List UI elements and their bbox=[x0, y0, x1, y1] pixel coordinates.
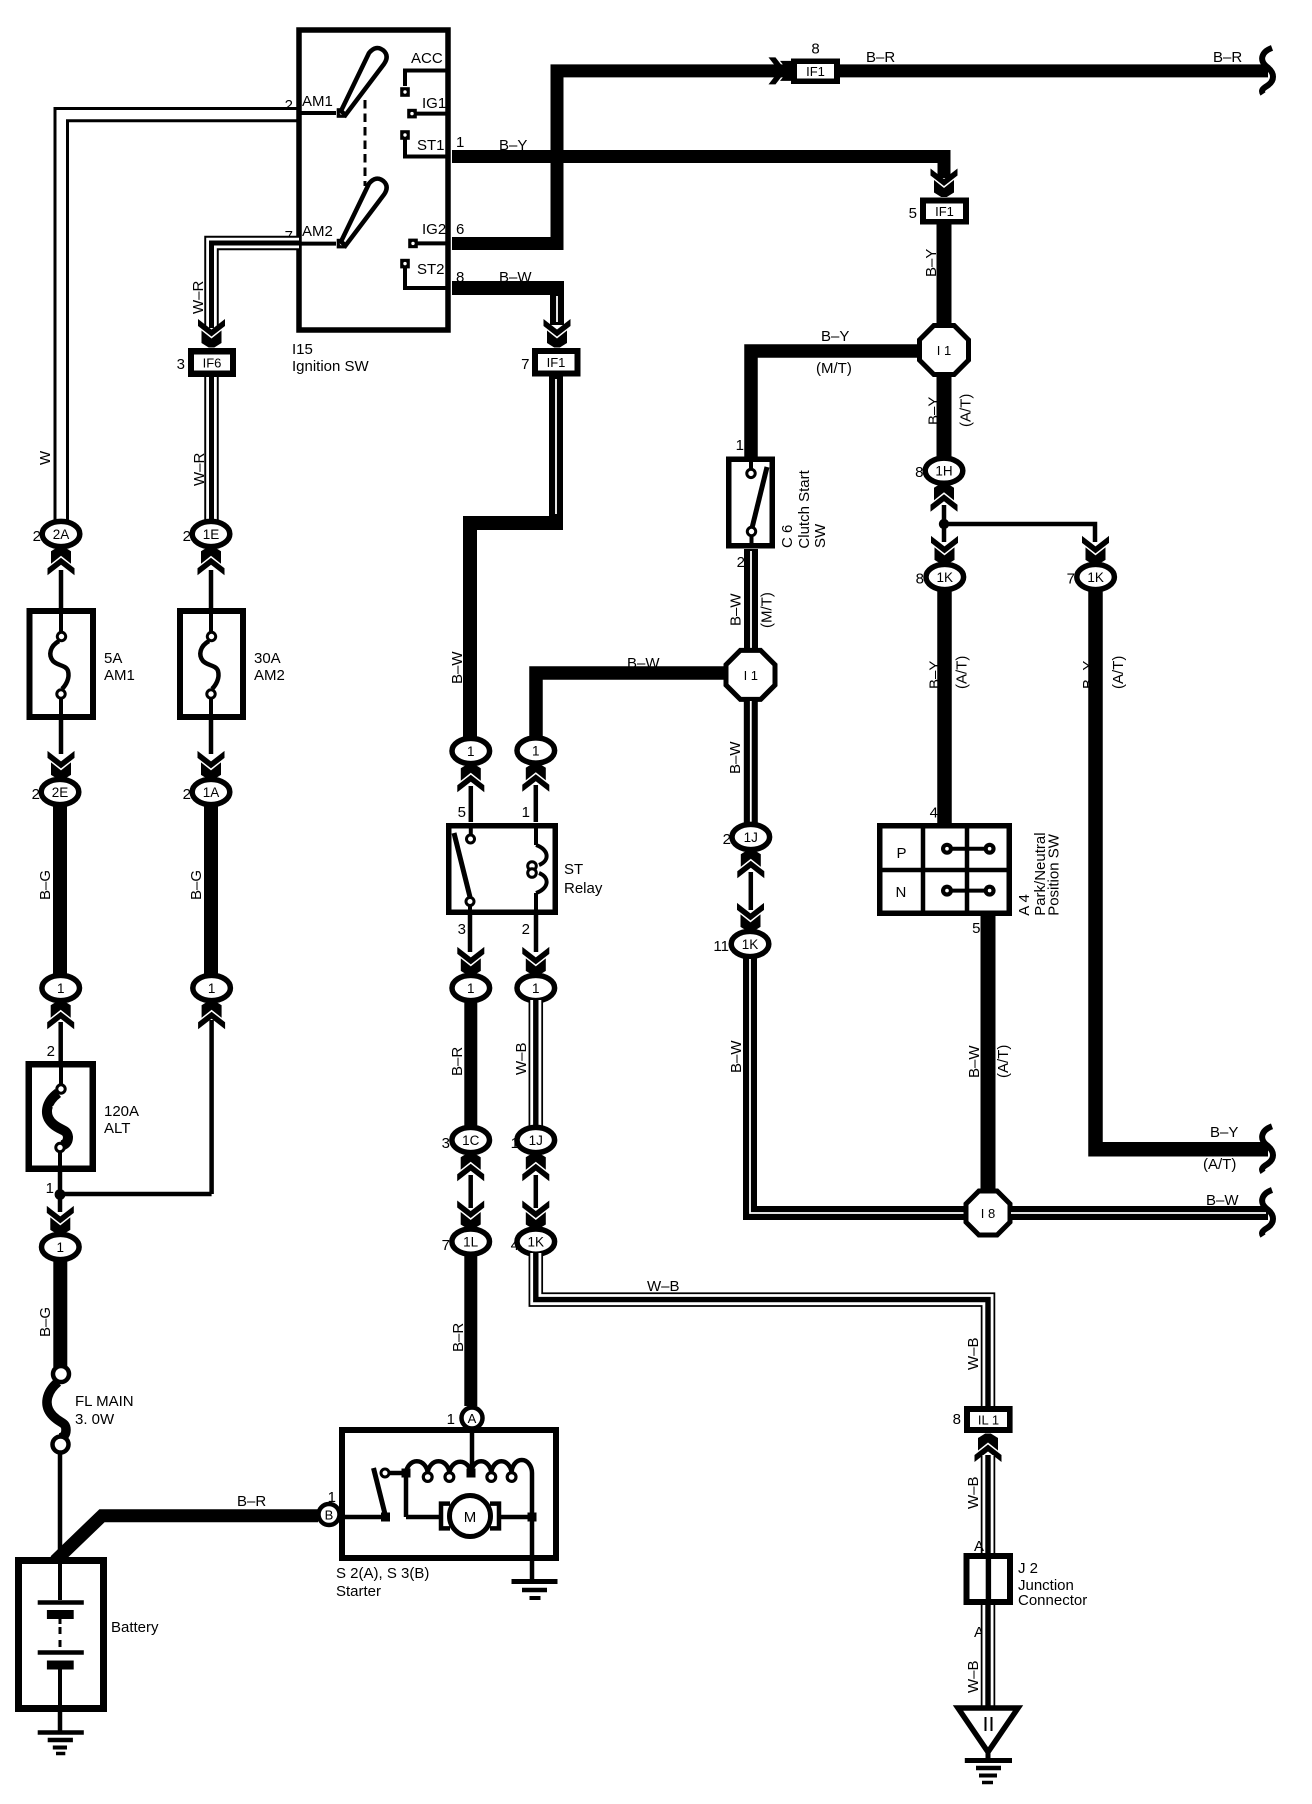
svg-text:1: 1 bbox=[532, 744, 540, 759]
connector 1K pin 7 bbox=[1077, 564, 1115, 589]
svg-text:3: 3 bbox=[177, 356, 185, 373]
wire contact to coil junction bbox=[389, 1471, 404, 1476]
wire oval to relay pin1 bbox=[534, 785, 539, 822]
svg-text:1K: 1K bbox=[742, 937, 759, 952]
node junction right bbox=[528, 1513, 537, 1522]
svg-text:1C: 1C bbox=[462, 1133, 480, 1148]
lever AM2 bbox=[341, 179, 387, 246]
svg-text:(A/T): (A/T) bbox=[1203, 1156, 1236, 1173]
svg-text:B–W: B–W bbox=[499, 269, 532, 286]
arrow into 2E bbox=[48, 751, 75, 780]
svg-text:1A: 1A bbox=[203, 785, 220, 800]
svg-text:IF6: IF6 bbox=[203, 356, 222, 371]
connector 1K pin 8 bbox=[926, 564, 964, 589]
svg-text:7: 7 bbox=[442, 1237, 450, 1254]
svg-text:W–R: W–R bbox=[191, 453, 208, 487]
svg-text:1: 1 bbox=[46, 1180, 54, 1197]
wire 1J to 1K thin bbox=[534, 1175, 539, 1208]
rotor dashed link bbox=[364, 100, 367, 186]
connector IL1 pin 8 bbox=[964, 1406, 1013, 1433]
wire AM1 pin bbox=[299, 111, 336, 115]
svg-text:1E: 1E bbox=[203, 527, 220, 542]
svg-text:(A/T): (A/T) bbox=[954, 656, 971, 689]
wire oval to relay pin5 bbox=[469, 786, 474, 822]
connector IF1 pin 5 bbox=[920, 198, 969, 225]
contact IG1 bbox=[407, 109, 417, 119]
motor brush right bbox=[490, 1504, 499, 1529]
relay switch contact top bbox=[467, 835, 475, 843]
wire 1C to 1L thin bbox=[468, 1175, 473, 1208]
wire W-B 1K(4) to IL1 triple bbox=[536, 1253, 988, 1406]
svg-text:1: 1 bbox=[511, 1135, 519, 1152]
svg-text:IG1: IG1 bbox=[422, 95, 446, 112]
svg-text:P: P bbox=[897, 845, 907, 862]
wire battery to ground bbox=[58, 1712, 63, 1732]
svg-text:8: 8 bbox=[811, 41, 819, 58]
wire W-B IL1 to J2 triple bbox=[981, 1455, 996, 1553]
svg-text:5: 5 bbox=[909, 205, 917, 222]
relay coil pin2 stub bbox=[534, 893, 538, 915]
wire 1H to junction dot bbox=[942, 505, 947, 542]
svg-text:1: 1 bbox=[447, 1411, 455, 1428]
contact AM2 bbox=[337, 239, 347, 249]
svg-text:1: 1 bbox=[736, 437, 744, 454]
relay coil bbox=[536, 845, 547, 865]
arrow into oval 1 (pin2) bbox=[522, 947, 549, 976]
svg-text:IF1: IF1 bbox=[935, 204, 954, 219]
svg-text:W–B: W–B bbox=[965, 1476, 982, 1509]
wire B-Y 1K(8) to park/neutral SW bbox=[937, 589, 952, 825]
contact P row bbox=[947, 847, 990, 851]
wire B-R IG2 to top right bbox=[452, 71, 1268, 244]
svg-text:Relay: Relay bbox=[564, 880, 603, 897]
node junction dot bbox=[55, 1189, 66, 1200]
connector IF6 pin 3 bbox=[188, 348, 236, 377]
svg-text:1: 1 bbox=[456, 134, 464, 151]
svg-text:B: B bbox=[325, 1508, 334, 1523]
svg-text:1H: 1H bbox=[935, 464, 952, 479]
wire junction to 1K(7) bbox=[944, 524, 1095, 542]
wire B-W ST2 to IF1(7) striped bbox=[452, 288, 557, 325]
arrow into 1L bbox=[457, 1201, 484, 1230]
connector 1 below pin2 bbox=[517, 975, 555, 1000]
svg-text:W–B: W–B bbox=[965, 1337, 982, 1370]
svg-text:1: 1 bbox=[467, 981, 475, 996]
svg-text:B–W: B–W bbox=[728, 1040, 745, 1073]
ignition switch I15 box bbox=[299, 30, 448, 330]
arrow into oval 1 lower bbox=[47, 1206, 74, 1235]
svg-text:2E: 2E bbox=[52, 785, 69, 800]
connector 1E pin 2 bbox=[192, 521, 230, 546]
connector 1H pin 8 bbox=[925, 458, 963, 483]
wire 1E to fuse AM2 bbox=[209, 570, 214, 608]
svg-text:AM2: AM2 bbox=[254, 667, 285, 684]
svg-text:ALT: ALT bbox=[104, 1120, 130, 1137]
svg-text:B–R: B–R bbox=[1213, 49, 1242, 66]
connector 2A pin 2 bbox=[42, 521, 80, 546]
svg-text:B–R: B–R bbox=[866, 49, 895, 66]
contact IG2 bbox=[408, 239, 418, 249]
wire W AM1 to 2A outer strand bbox=[55, 109, 299, 523]
svg-text:B–W: B–W bbox=[449, 651, 466, 684]
lever clutch bbox=[752, 467, 768, 530]
svg-text:A: A bbox=[468, 1411, 477, 1426]
arrow up into 1H bbox=[931, 483, 958, 512]
connector 1 left bbox=[42, 975, 80, 1000]
svg-text:Ignition SW: Ignition SW bbox=[292, 358, 370, 375]
arrow up into oval 1 left bbox=[47, 1001, 74, 1029]
svg-text:AM1: AM1 bbox=[302, 93, 333, 110]
svg-text:(A/T): (A/T) bbox=[958, 394, 975, 427]
svg-text:B–W: B–W bbox=[1206, 1192, 1239, 1209]
arrow up into 2A bbox=[48, 547, 75, 576]
wire fuse AM1 to 2E bbox=[59, 720, 64, 754]
wire B-R oval to 1C bbox=[464, 1000, 477, 1128]
svg-text:B–Y: B–Y bbox=[499, 137, 527, 154]
arrow into 1A bbox=[198, 751, 225, 780]
svg-text:SW: SW bbox=[812, 523, 829, 548]
wire 2A to fuse AM1 bbox=[59, 570, 64, 608]
node junction dot bbox=[939, 519, 949, 529]
arrow up into IL1 bbox=[975, 1434, 1002, 1463]
svg-text:1: 1 bbox=[57, 1240, 65, 1255]
wire B-G 1A down bbox=[204, 804, 218, 976]
lever AM1 bbox=[341, 48, 387, 115]
svg-text:B–G: B–G bbox=[37, 1307, 54, 1337]
svg-text:(M/T): (M/T) bbox=[759, 592, 776, 628]
svg-text:ST: ST bbox=[564, 861, 583, 878]
connector 1C pin 3 bbox=[452, 1127, 490, 1152]
svg-text:B–Y: B–Y bbox=[1210, 1124, 1238, 1141]
wire B-Y 1K(7) to right edge bbox=[1096, 589, 1269, 1149]
svg-text:2: 2 bbox=[47, 1043, 55, 1060]
svg-text:5A: 5A bbox=[104, 650, 122, 667]
svg-text:A: A bbox=[974, 1538, 984, 1555]
fuse 5A AM1 box bbox=[30, 611, 94, 717]
svg-text:1J: 1J bbox=[529, 1133, 543, 1148]
svg-text:2: 2 bbox=[522, 921, 530, 938]
relay switch contact bottom bbox=[466, 898, 474, 906]
coil hold-in winding bbox=[406, 1461, 471, 1473]
wire B-Y IF1 to I1 bbox=[937, 225, 952, 329]
svg-text:2: 2 bbox=[723, 831, 731, 848]
wire B-G oval to FL MAIN bbox=[53, 1259, 67, 1367]
wire W AM1 to 2A inner strand bbox=[68, 121, 300, 522]
svg-text:S 2(A), S 3(B): S 2(A), S 3(B) bbox=[336, 1565, 429, 1582]
svg-text:1K: 1K bbox=[937, 570, 954, 585]
wire B-W IF1(7) to relay striped bbox=[470, 377, 556, 739]
connector 1L pin 7 bbox=[452, 1229, 490, 1254]
svg-text:1K: 1K bbox=[528, 1235, 545, 1250]
connector IF1 pin 8 bbox=[791, 59, 840, 85]
connector IF1 pin 7 bbox=[532, 348, 581, 377]
fusible link FL MAIN bbox=[53, 1366, 69, 1382]
svg-text:B–W: B–W bbox=[627, 655, 660, 672]
arrow up into oval 1 left bbox=[457, 764, 484, 793]
arrow up into 1J bbox=[522, 1153, 549, 1182]
wire B-W I1 to 1J striped bbox=[744, 698, 758, 825]
wire W-B oval to 1J triple bbox=[529, 1000, 544, 1128]
relay switch pin3 stub bbox=[468, 905, 472, 915]
svg-text:1: 1 bbox=[467, 744, 475, 759]
wire junction to right oval 1 bbox=[60, 1020, 212, 1194]
svg-text:IF1: IF1 bbox=[806, 64, 825, 79]
svg-text:W: W bbox=[37, 450, 54, 465]
starter box S2(A) S3(B) bbox=[342, 1430, 556, 1558]
wire oval to ALT fuse bbox=[58, 1022, 63, 1061]
wire IG2 contact bbox=[417, 241, 448, 245]
coil pull-in winding bbox=[471, 1460, 532, 1473]
arrow into 1K(4) bbox=[522, 1201, 549, 1230]
relay switch pin5 stub bbox=[469, 823, 473, 834]
contact clutch top bbox=[747, 469, 755, 477]
fuse 30A AM2 box bbox=[180, 611, 243, 717]
divider vertical 1 bbox=[921, 825, 926, 914]
svg-text:C 6: C 6 bbox=[779, 525, 796, 548]
connector 1A pin 2 bbox=[192, 779, 230, 804]
svg-text:(A/T): (A/T) bbox=[1110, 656, 1127, 689]
svg-text:B–R: B–R bbox=[449, 1047, 466, 1076]
svg-text:AM2: AM2 bbox=[302, 223, 333, 240]
svg-text:B–Y: B–Y bbox=[927, 661, 944, 689]
connector 2E pin 2 bbox=[41, 779, 79, 804]
park/neutral position switch A4 box bbox=[880, 826, 1010, 914]
svg-text:2: 2 bbox=[33, 528, 41, 545]
svg-text:FL MAIN: FL MAIN bbox=[75, 1393, 134, 1410]
svg-text:1K: 1K bbox=[1087, 570, 1104, 585]
fuse 120A ALT box bbox=[29, 1064, 93, 1169]
svg-text:3. 0W: 3. 0W bbox=[75, 1411, 115, 1428]
arrow up into 1C bbox=[457, 1153, 484, 1182]
svg-text:Clutch Start: Clutch Start bbox=[796, 469, 813, 548]
wire relay pin2 down bbox=[534, 915, 539, 952]
relay switch lever bbox=[454, 833, 470, 897]
svg-text:B–G: B–G bbox=[37, 870, 54, 900]
svg-text:2: 2 bbox=[32, 786, 40, 803]
svg-text:8: 8 bbox=[953, 1411, 961, 1428]
arrow into 1K(8) bbox=[931, 536, 958, 565]
svg-text:B–Y: B–Y bbox=[821, 328, 849, 345]
ground II stem bbox=[986, 1752, 991, 1759]
arrow into 1K(7) bbox=[1082, 536, 1109, 565]
junction I1 bbox=[920, 326, 969, 375]
wire B-Y M/T branch bbox=[751, 351, 921, 457]
connector 1 below pin3 bbox=[452, 975, 490, 1000]
contact ST2 bbox=[400, 259, 410, 269]
connector 1J pin 2 bbox=[732, 824, 770, 849]
svg-text:B–W: B–W bbox=[728, 593, 745, 626]
svg-text:Starter: Starter bbox=[336, 1583, 381, 1600]
svg-text:2A: 2A bbox=[53, 527, 70, 542]
connector 1 above relay pin5 bbox=[452, 738, 490, 763]
motor M starter bbox=[450, 1496, 491, 1537]
connector 1 above relay pin1 bbox=[517, 738, 555, 763]
svg-text:W–B: W–B bbox=[965, 1660, 982, 1693]
wire B-Y A/T below I1 bbox=[937, 372, 952, 458]
svg-text:I15: I15 bbox=[292, 341, 313, 358]
fuse AM1 element bbox=[59, 608, 63, 633]
connector 1 lower bbox=[42, 1234, 80, 1259]
clutch start switch C6 box bbox=[729, 459, 773, 546]
svg-text:W–R: W–R bbox=[190, 281, 207, 315]
wire A into coil bbox=[470, 1428, 475, 1470]
svg-text:B–G: B–G bbox=[188, 870, 205, 900]
divider vertical 2 bbox=[965, 825, 970, 914]
continuation curl B-W bbox=[1262, 1190, 1273, 1236]
wire 1J to 1K thin bbox=[749, 872, 754, 910]
svg-text:IL 1: IL 1 bbox=[978, 1413, 999, 1428]
continuation curl B-Y bbox=[1262, 1126, 1273, 1172]
svg-text:1: 1 bbox=[57, 981, 65, 996]
svg-text:4: 4 bbox=[930, 805, 938, 822]
svg-text:1: 1 bbox=[208, 981, 216, 996]
junction I1 lower bbox=[726, 650, 775, 699]
wire coil end down bbox=[530, 1473, 535, 1517]
svg-text:2: 2 bbox=[183, 528, 191, 545]
svg-text:ACC: ACC bbox=[411, 50, 443, 67]
svg-text:7: 7 bbox=[1067, 571, 1075, 588]
arrow into oval 1 (pin3) bbox=[457, 947, 484, 976]
svg-text:4: 4 bbox=[511, 1237, 519, 1254]
svg-text:1L: 1L bbox=[463, 1235, 479, 1250]
svg-text:2: 2 bbox=[737, 554, 745, 571]
contact N row bbox=[947, 889, 990, 893]
svg-text:3: 3 bbox=[458, 921, 466, 938]
connector 1 right bbox=[193, 975, 231, 1000]
wire B-W I1 to relay pin1 bbox=[536, 673, 727, 739]
wire B-R battery to starter B bbox=[55, 1516, 318, 1561]
svg-text:IG2: IG2 bbox=[422, 221, 446, 238]
wire W-R AM2 to IF6 triple bbox=[212, 243, 300, 328]
wire clutch top pin bbox=[749, 459, 753, 468]
wire B-R 1L to starter A bbox=[464, 1253, 477, 1406]
svg-text:(M/T): (M/T) bbox=[816, 360, 852, 377]
svg-text:AM1: AM1 bbox=[104, 667, 135, 684]
svg-text:8: 8 bbox=[916, 571, 924, 588]
svg-text:Connector: Connector bbox=[1018, 1592, 1087, 1609]
wire ACC contact bbox=[405, 71, 448, 87]
svg-text:N: N bbox=[896, 884, 907, 901]
arrow up into 1J bbox=[737, 850, 764, 879]
wire motor to junction right bbox=[499, 1515, 532, 1520]
ground starter bbox=[512, 1579, 558, 1584]
svg-text:5: 5 bbox=[972, 920, 980, 937]
svg-text:120A: 120A bbox=[104, 1103, 139, 1120]
svg-text:B–Y: B–Y bbox=[923, 249, 940, 277]
wire B-W M/T clutch to I1 striped bbox=[744, 549, 758, 653]
wire B-W I8 to right edge striped bbox=[1008, 1206, 1268, 1220]
wire ALT to junction bbox=[58, 1172, 63, 1194]
svg-text:I 1: I 1 bbox=[937, 343, 951, 358]
relay coil pin1 stub bbox=[534, 823, 538, 845]
wire clutch bottom pin bbox=[750, 536, 754, 548]
connector 1K pin 11 bbox=[731, 931, 769, 956]
svg-text:J 2: J 2 bbox=[1018, 1560, 1038, 1577]
wire AM2 pin bbox=[299, 242, 336, 246]
motor brush left bbox=[441, 1504, 450, 1529]
starter switch contact bbox=[381, 1469, 389, 1477]
svg-text:I 1: I 1 bbox=[744, 668, 758, 683]
svg-text:B–W: B–W bbox=[966, 1045, 983, 1078]
terminal B starter bbox=[319, 1504, 340, 1525]
wire B-W A/T pin5 to I8 bbox=[981, 916, 996, 1192]
svg-text:8: 8 bbox=[915, 464, 923, 481]
connector 1J pin 1 bbox=[517, 1127, 555, 1152]
contact ACC bbox=[400, 87, 410, 97]
connector 1K pin 4 bbox=[517, 1229, 555, 1254]
svg-text:W–B: W–B bbox=[513, 1042, 530, 1075]
arrow into IF1(7) bbox=[544, 319, 571, 348]
starter switch lever bbox=[374, 1468, 386, 1516]
junction connector J2 bbox=[964, 1553, 1014, 1605]
svg-text:I 8: I 8 bbox=[981, 1206, 995, 1221]
arrow up into 1E bbox=[198, 547, 225, 576]
wire fuse AM2 to 1A bbox=[209, 720, 214, 754]
contact clutch bottom bbox=[747, 527, 755, 535]
svg-text:B–Y: B–Y bbox=[1080, 661, 1097, 689]
svg-text:B–W: B–W bbox=[727, 741, 744, 774]
junction I8 bbox=[966, 1191, 1010, 1235]
divider horizontal bbox=[879, 868, 1010, 873]
svg-text:B–Y: B–Y bbox=[926, 397, 943, 425]
battery box bbox=[19, 1561, 104, 1709]
contact AM1 bbox=[337, 108, 347, 118]
svg-text:ST2: ST2 bbox=[417, 261, 445, 278]
svg-text:1J: 1J bbox=[744, 830, 758, 845]
wire ST2 contact bbox=[405, 268, 448, 288]
fuse AM2 element bbox=[209, 608, 213, 633]
wire junction down bbox=[58, 1194, 63, 1212]
arrow up into oval 1 right bbox=[198, 1001, 225, 1029]
wire B-Y ST1 to IF1(5) bbox=[452, 157, 944, 179]
ground II triangle bbox=[958, 1708, 1018, 1752]
svg-text:M: M bbox=[464, 1509, 477, 1526]
node coil junction left bbox=[402, 1469, 411, 1478]
ground II bars bbox=[965, 1758, 1012, 1763]
svg-text:2: 2 bbox=[285, 97, 293, 114]
arrow into IF1(5) bbox=[931, 169, 958, 198]
svg-text:Position SW: Position SW bbox=[1046, 833, 1063, 916]
svg-text:Battery: Battery bbox=[111, 1619, 159, 1636]
continuation curl B-R bbox=[1262, 48, 1273, 94]
wire FL MAIN to battery bbox=[58, 1452, 63, 1558]
svg-text:1: 1 bbox=[522, 804, 530, 821]
battery cells bbox=[58, 1560, 62, 1600]
arrow up into oval 1 right bbox=[522, 763, 549, 792]
wire ST1 contact bbox=[405, 139, 448, 157]
ground battery bbox=[38, 1730, 84, 1735]
wire B to switch bbox=[339, 1515, 385, 1520]
wire W-B J2 to ground triple bbox=[981, 1605, 996, 1706]
svg-text:(A/T): (A/T) bbox=[995, 1045, 1012, 1078]
svg-text:7: 7 bbox=[521, 356, 529, 373]
wire relay pin3 down bbox=[468, 915, 473, 952]
fuse ALT element bbox=[59, 1061, 63, 1085]
arrow into 1K(11) bbox=[737, 903, 764, 932]
node coil junction center bbox=[467, 1469, 476, 1478]
svg-text:IF1: IF1 bbox=[547, 355, 566, 370]
arrow into IF6 bbox=[198, 319, 225, 348]
svg-text:ST1: ST1 bbox=[417, 137, 445, 154]
wire W-R IF6 to 1E triple bbox=[204, 377, 219, 522]
svg-text:A 4: A 4 bbox=[1016, 894, 1033, 916]
contact ST1 bbox=[400, 130, 410, 140]
svg-text:6: 6 bbox=[456, 221, 464, 238]
arrow into IF1(8) bbox=[769, 57, 798, 84]
svg-text:W–B: W–B bbox=[647, 1278, 680, 1295]
svg-text:11: 11 bbox=[713, 938, 729, 955]
ST relay box bbox=[449, 826, 556, 913]
